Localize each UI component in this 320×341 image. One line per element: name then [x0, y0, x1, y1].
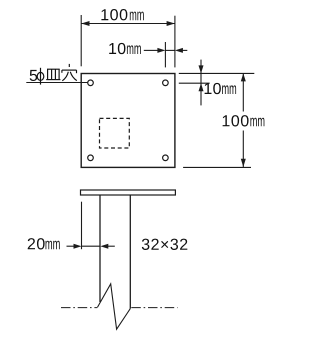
leader underline 5phi countersunk hole [26, 82, 87, 84]
label 20mm (mm) [46, 241, 60, 250]
arrowhead pointing left (10mm top) [175, 48, 183, 53]
post right side [129, 195, 131, 308]
hole bottom-left [88, 155, 94, 161]
arrowhead pointing right (20mm) [74, 244, 82, 249]
centerline left (dash-dot) [61, 307, 97, 309]
label 100mm right (digits) [223, 115, 249, 126]
label 10mm top (digits) [109, 43, 125, 54]
leader tail 20mm [67, 245, 75, 247]
dimension line 100mm right upper segment [242, 73, 244, 111]
dimension segment between lines (10mm top) [165, 49, 175, 51]
label 10mm right (mm) [222, 85, 236, 94]
extension line hole center (right 10mm) [179, 82, 210, 84]
extension line left (100mm top) [80, 15, 82, 66]
dimension segment (20mm) [82, 245, 101, 247]
centerline right (dash-dot) [131, 307, 177, 309]
arrowhead pointing right (10mm top) [157, 48, 165, 53]
extension line hole center (10mm top) [164, 42, 166, 67]
dimension line 10mm right (vertical) [200, 60, 202, 106]
kanji sara (dish) drawn strokes [46, 69, 60, 79]
label 20mm (digits) [28, 238, 45, 249]
label 10mm top (mm) [127, 45, 141, 54]
label 100mm top (digits) [101, 9, 127, 20]
arrowhead pointing up (10mm right) [199, 83, 204, 91]
extension line plate bottom edge (right 100mm) [183, 166, 251, 168]
flange bar (side view) [81, 190, 176, 195]
arrowhead pointing up (100mm right) [241, 73, 246, 81]
break zigzag [97, 284, 130, 329]
arrowhead pointing left (20mm) [100, 244, 108, 249]
hole top-left [88, 80, 94, 86]
hidden post outline 32x32 (dashed square) [100, 118, 130, 148]
plate outline (top view) [81, 74, 175, 168]
tail line right (10mm top) [182, 49, 187, 51]
label 10mm right (digits) [205, 83, 221, 94]
arrowhead left (100mm top) [81, 21, 89, 26]
dimension line 100mm right lower segment [242, 131, 244, 168]
arrowhead right (100mm top) [167, 21, 175, 26]
extension line flange left edge (20mm) [81, 202, 83, 250]
tail line right (20mm) [108, 245, 115, 247]
label 100mm top (mm) [130, 12, 144, 21]
extension line right (100mm top / 10mm) [174, 16, 176, 68]
phi symbol drawn [37, 68, 44, 85]
kanji ana (hole) drawn strokes [62, 64, 77, 81]
extension line plate top edge (right dims) [179, 72, 255, 74]
leader line 10mm top [144, 49, 158, 51]
label 5 [30, 70, 38, 81]
hole top-right [163, 80, 169, 86]
label 32x32 [142, 239, 188, 250]
label 100mm right (mm) [250, 118, 264, 127]
dimension line 100mm top [81, 23, 175, 25]
arrowhead pointing down (100mm right) [241, 159, 246, 167]
arrowhead pointing down (10mm right) [199, 65, 204, 73]
hole bottom-right [163, 155, 169, 161]
post left side [99, 195, 101, 302]
